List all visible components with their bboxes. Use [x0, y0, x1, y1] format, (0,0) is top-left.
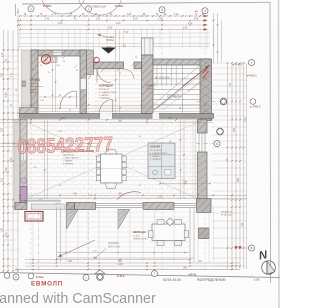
svg-text:Scanned with CamScanner: Scanned with CamScanner: [0, 291, 156, 307]
dash-dot axis bottom-left: [38, 212, 40, 271]
page right edge shadow: [278, 0, 281, 308]
wall: main spine: [20, 114, 214, 119]
svg-text:◄t: ◄t: [194, 9, 198, 13]
svg-text:4. ЛАТЕКС: 4. ЛАТЕКС: [99, 94, 110, 97]
eave lines over rooms: [18, 32, 210, 35]
section triangle marker: [101, 48, 116, 54]
clutter tiny dims kitchen: [33, 131, 172, 197]
red circled marker: [41, 55, 50, 64]
door leaf triangle 1: [67, 210, 79, 230]
veranda bottom edge: [57, 257, 195, 259]
window right sills: [198, 133, 200, 152]
svg-text:4.05: 4.05: [5, 92, 8, 97]
clutter tiny dims upper block: [32, 56, 138, 112]
wall: stair room left: [142, 55, 154, 114]
svg-text:1 (мазе): 1 (мазе): [30, 92, 38, 94]
dim above bottom wall: [18, 194, 247, 196]
svg-text:Р-40►: Р-40►: [43, 4, 52, 8]
wall: A2 parallel: [87, 50, 94, 75]
radiator under window: [43, 57, 57, 63]
svg-text:235: 235: [233, 127, 236, 132]
witness lines top: [20, 28, 214, 49]
svg-text:Н= 16.03 КЛА: Н= 16.03 КЛА: [155, 76, 170, 79]
svg-text:195: 195: [1, 227, 4, 232]
stairs diagonals: [154, 66, 209, 111]
window bottom-2: [174, 202, 197, 204]
right border line: [269, 2, 272, 283]
svg-text:5. ЛЕПИЛО: 5. ЛЕПИЛО: [99, 98, 110, 100]
dims above spine wall: [20, 104, 210, 106]
door gap in spine (stair-kitchen): [153, 113, 160, 119]
svg-text:КОРИДОР: КОРИДОР: [99, 84, 113, 88]
svg-text:3.40: 3.40: [188, 23, 193, 25]
wall: bottom segment mid: [75, 203, 96, 210]
svg-text:1.40: 1.40: [158, 19, 163, 21]
wall: left lower exterior: [20, 120, 27, 203]
svg-text:1.60: 1.60: [96, 19, 101, 21]
svg-text:2. ЛАТЕКС: 2. ЛАТЕКС: [150, 155, 161, 158]
svg-text:КОТА +0.00: КОТА +0.00: [221, 213, 233, 216]
wall: storage top: [31, 50, 87, 56]
svg-text:1.20: 1.20: [158, 197, 163, 199]
svg-text:ТРОТОАР: ТРОТОАР: [108, 242, 119, 245]
wall: storage left: [31, 50, 38, 114]
svg-text:ЕВМОЛП: ЕВМОЛП: [31, 280, 63, 287]
svg-text:С ЛАТЕКС: С ЛАТЕКС: [63, 159, 74, 162]
svg-text:2.60: 2.60: [58, 23, 63, 25]
svg-text:1.90: 1.90: [45, 19, 50, 21]
svg-text:РАЗПРЕДЕЛЕНИЕ: РАЗПРЕДЕЛЕНИЕ: [197, 278, 226, 282]
veranda table: [149, 218, 189, 246]
svg-text:РД 4.0 м²: РД 4.0 м²: [30, 82, 39, 85]
svg-text:2: 2: [88, 7, 90, 11]
door gap in spine (corridor-kitchen): [100, 113, 113, 119]
svg-text:Р-40►: Р-40►: [115, 4, 124, 8]
bottom dimension chain: [15, 258, 240, 271]
door gap in wall A: [81, 79, 86, 89]
kitchen cabinet block: [148, 143, 175, 179]
corridor inner dims: [115, 30, 117, 113]
wall: corridor top right seg: [134, 62, 142, 69]
svg-text:140: 140: [229, 82, 232, 87]
svg-text:3. ЛЕПИЛО: 3. ЛЕПИЛО: [150, 159, 161, 161]
wall stub above spine left: [20, 108, 37, 114]
bottom axis bubbles: [4, 273, 10, 279]
dining table: [96, 149, 126, 188]
small box on left wall: [22, 81, 26, 87]
compass circle: [262, 261, 276, 275]
svg-text:170: 170: [241, 222, 244, 227]
svg-text:15,8 м²: 15,8 м²: [133, 234, 140, 237]
bottom frame line: [0, 273, 280, 278]
wall: bottom pier 3: [143, 203, 174, 210]
svg-text:700Рлв: 700Рлв: [106, 40, 115, 42]
door arc to veranda: [117, 192, 141, 200]
svg-text:7.05: 7.05: [10, 157, 13, 162]
stairs right dims: [160, 183, 210, 185]
witness lines bottom: [33, 207, 232, 262]
bottom sill under window: [32, 204, 66, 210]
window in storage top wall: [53, 51, 62, 56]
svg-text:Р-40►: Р-40►: [117, 274, 125, 278]
svg-text:◄Р-41: ◄Р-41: [188, 273, 197, 277]
svg-text:3: 3: [161, 8, 163, 12]
red scribble marker 2: [94, 57, 100, 63]
svg-text:▼РАВ 5: ▼РАВ 5: [247, 74, 258, 78]
violet insulated segment: [20, 187, 27, 202]
svg-text:т.РИВОм: т.РИВОм: [146, 89, 155, 91]
svg-text:0885422777: 0885422777: [17, 134, 113, 159]
wall: storage right A: [80, 50, 87, 114]
svg-text:1: 1: [30, 7, 32, 11]
svg-text:и зидове: и зидове: [30, 89, 39, 91]
svg-text:ТАБЛО №24: ТАБЛО №24: [92, 5, 107, 8]
veranda diagonal arrow: [58, 240, 95, 257]
svg-text:Р-40►: Р-40►: [36, 275, 44, 279]
wall: bottom corner right: [197, 199, 212, 213]
door arc corridor bottom: [100, 100, 113, 113]
svg-text:98 3.60 м²: 98 3.60 м²: [99, 88, 109, 91]
veranda left edge: [56, 207, 58, 262]
hatch right upper wall: [200, 59, 212, 115]
svg-text:4: 4: [204, 9, 206, 13]
svg-text:ПИЛАСТЪР: ПИЛАСТЪР: [221, 211, 233, 214]
svg-text:3. ГРАНИТОГРЕС: 3. ГРАНИТОГРЕС: [99, 91, 117, 94]
wall: bottom pier far left: [15, 203, 27, 210]
left dimension chain: [1, 4, 19, 272]
top door-swing arcs: [40, 0, 86, 14]
bottom window glass line left: [24, 199, 61, 201]
svg-text:1:50: 1:50: [254, 278, 260, 282]
veranda right edge: [189, 207, 191, 262]
planter box: [25, 212, 43, 222]
svg-text:СтлБой: СтлБой: [106, 36, 115, 39]
top dimension chain: [19, 14, 208, 34]
svg-text:1.000: 1.000: [117, 264, 123, 266]
witness lines left: [4, 50, 19, 266]
right wall inner face lines: [195, 120, 197, 199]
svg-text:210: 210: [1, 177, 4, 182]
svg-text:5.05: 5.05: [108, 28, 113, 30]
stairs red diagonal: [183, 65, 210, 86]
svg-text:КОТА -0,30: КОТА -0,30: [108, 246, 121, 249]
wall: right upper concrete: [200, 59, 212, 121]
top axis bubbles: [28, 6, 208, 14]
kitchen dim pair right: [180, 120, 182, 199]
svg-text:7.20: 7.20: [244, 117, 247, 122]
svg-text:А: А: [15, 275, 17, 279]
svg-text:99. 15.00 м²: 99. 15.00 м²: [150, 149, 162, 152]
svg-text:ВЕРАНДА: ВЕРАНДА: [133, 230, 146, 234]
door arc storage: [60, 91, 77, 108]
svg-text:290: 290: [237, 177, 240, 182]
veranda inner dim line: [57, 252, 190, 254]
wall: corridor top: [94, 62, 124, 69]
storage interior dim pair: [52, 56, 54, 112]
floor hatch veranda: [58, 212, 190, 252]
door leaf triangle 2: [118, 210, 130, 230]
axis grid horizontals right: [196, 102, 249, 249]
witness lines right: [212, 63, 246, 266]
svg-text:КУХНЯ: КУХНЯ: [150, 145, 160, 149]
svg-text:305: 305: [1, 72, 4, 77]
svg-text:и отоплението: и отоплението: [30, 86, 45, 88]
top border line: [22, 2, 270, 4]
diamond axis marker right: [216, 128, 223, 135]
svg-text:3 ЛЕПИЛО: 3 ЛЕПИЛО: [63, 163, 74, 165]
red marks on right wall: [203, 71, 209, 79]
wall: kitchen right upper: [198, 120, 208, 134]
roof axis marker: [95, 270, 105, 280]
floor hatch kitchen (brick tile): [27, 122, 197, 201]
svg-text:СП. ТАБЛОА: СП. ТАБЛОА: [167, 95, 182, 98]
stairs treads: [153, 65, 200, 113]
svg-text:Ж: Ж: [44, 58, 47, 62]
svg-text:В: В: [251, 246, 253, 250]
right axis bubbles: [249, 60, 255, 66]
window left lower: [20, 145, 26, 160]
svg-text:3.66: 3.66: [194, 19, 199, 21]
svg-text:СКЛАД: СКЛАД: [30, 77, 40, 81]
svg-text:ПАРКЕТ: ПАРКЕТ: [146, 85, 156, 88]
svg-text:1. ГРАНИТОГРЕС: 1. ГРАНИТОГРЕС: [150, 152, 168, 155]
spine wall hatch: [24, 114, 212, 119]
svg-text:2.40: 2.40: [5, 232, 8, 237]
wall: stair room top: [153, 59, 210, 65]
svg-text:КОТА ±0.00: КОТА ±0.00: [163, 278, 181, 282]
dim under spine wall: [0, 119, 213, 121]
storage interior dim horizontal: [39, 96, 79, 98]
svg-text:240: 240: [1, 127, 4, 132]
axis grid verticals: [31, 12, 205, 270]
wall: bottom pier 2: [67, 203, 75, 210]
svg-text:ГРАНИТОГРЕС: ГРАНИТОГРЕС: [133, 237, 148, 240]
wall: kitchen right lower: [198, 152, 208, 199]
red arrows bottom right chain: [234, 246, 238, 249]
svg-text:2.05: 2.05: [133, 19, 138, 21]
svg-text:1.05: 1.05: [127, 14, 132, 16]
kitchen floor diagonals: [28, 123, 196, 198]
svg-text:3.66: 3.66: [183, 28, 188, 30]
right dimension chain: [213, 13, 247, 269]
kitchen dim pair left: [44, 120, 46, 199]
dim mid kitchen: [0, 143, 98, 145]
veranda right column: [199, 228, 210, 239]
wall: stair room left upper outline: [142, 38, 154, 55]
outer strip left of storage: [22, 50, 32, 113]
door arc vestibule: [124, 69, 134, 79]
svg-text:1.70: 1.70: [52, 14, 57, 16]
svg-text:1.20: 1.20: [174, 14, 179, 16]
svg-text:▲ РАВ 5: ▲ РАВ 5: [250, 105, 261, 109]
window bottom-1: [96, 202, 144, 204]
svg-text:2.40: 2.40: [116, 23, 121, 25]
floor hatch corridor: [94, 71, 141, 111]
terrace gray strip: [14, 120, 20, 210]
door arc corridor top: [97, 69, 111, 83]
svg-text:▼Р-40 5: ▼Р-40 5: [232, 63, 243, 67]
